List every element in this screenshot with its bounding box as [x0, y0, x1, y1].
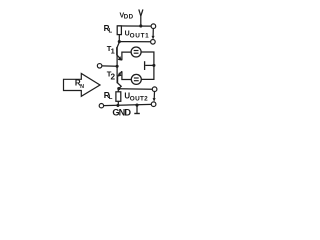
svg-text:L: L — [109, 29, 113, 35]
svg-text:OUT2: OUT2 — [130, 95, 148, 102]
wire resistor2 to gnd rail — [117, 101, 119, 105]
node gnd junction — [135, 104, 138, 107]
terminal circle output2 bottom — [151, 102, 156, 107]
terminal circle output1 top — [151, 24, 156, 29]
wire base link T1-T2 — [116, 55, 118, 76]
svg-text:1: 1 — [111, 47, 115, 56]
svg-text:2: 2 — [111, 73, 116, 82]
wire node2 to resistor2 — [117, 89, 119, 92]
transistor T2 (PNP) — [117, 71, 122, 88]
node resistor2 gnd — [116, 104, 119, 107]
resistor RL top — [117, 26, 121, 35]
wire node1 to output1 bottom — [119, 41, 150, 43]
label RL (top) — [104, 24, 113, 34]
supply terminal Y (VDD fork) — [139, 9, 143, 26]
wire gnd rail — [104, 104, 152, 105]
terminal circle gnd left — [99, 104, 103, 108]
node mid — [152, 64, 155, 67]
node collector T2 — [117, 87, 120, 90]
wire input to bases — [102, 65, 117, 67]
wire source1 right to mid column — [141, 52, 154, 65]
svg-text:L: L — [109, 95, 113, 101]
ground — [134, 105, 140, 113]
wire mid column down to source2 — [141, 65, 154, 79]
source G2 (circle with = ) — [131, 74, 141, 84]
label UOUT2 — [124, 92, 148, 103]
arrow UOUT1 (down) — [152, 29, 155, 40]
label VDD — [120, 12, 134, 20]
label GND — [112, 108, 131, 118]
node collector T1 — [118, 40, 121, 43]
label T2 — [107, 70, 116, 82]
mid tap bar — [145, 61, 154, 70]
input block arrow RN — [64, 74, 101, 97]
wire T2 emitter to source2 — [122, 71, 131, 79]
svg-text:N: N — [80, 84, 84, 90]
wire T1 emitter to source1 — [122, 52, 131, 60]
wire top rail VDD — [117, 25, 151, 27]
transistor T1 (NPN) — [117, 42, 122, 60]
node VDD junction — [139, 24, 142, 27]
wire resistor1 to node — [118, 35, 120, 42]
node base junction — [116, 65, 119, 68]
label T1 — [107, 44, 115, 56]
arrow UOUT2 (down) — [153, 92, 156, 102]
resistor RL bottom — [116, 92, 121, 102]
label UOUT1 — [125, 31, 150, 40]
svg-text:OUT1: OUT1 — [130, 32, 150, 39]
terminal circle output1 bottom — [151, 40, 156, 45]
svg-text:GND: GND — [112, 108, 131, 118]
svg-text:DD: DD — [124, 14, 134, 21]
source G1 (circle with = ) — [131, 47, 141, 57]
input terminal circle — [97, 64, 102, 69]
label RL (bottom) — [104, 90, 113, 101]
terminal circle output2 top — [152, 87, 157, 92]
wire node2 to output2 top — [119, 88, 153, 90]
